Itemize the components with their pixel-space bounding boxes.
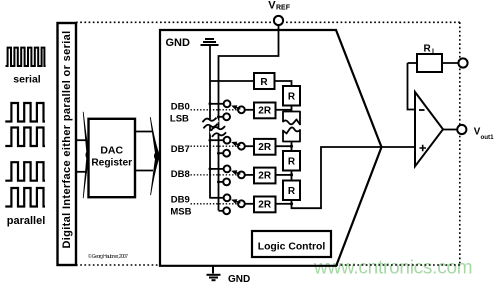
svg-text:© Georg Haubner, 2007: © Georg Haubner, 2007: [88, 253, 128, 260]
svg-text:2R: 2R: [258, 171, 272, 182]
parallel bit waveform 3: [5, 162, 45, 181]
wire chain: [291, 142, 293, 152]
svg-text:GND: GND: [166, 37, 191, 49]
junction dot VREF bus (DB8): [217, 180, 220, 183]
Vout terminal circle: [457, 125, 466, 134]
upper contact circle (DB0): [224, 100, 231, 107]
svg-text:www.cntronics.com: www.cntronics.com: [313, 258, 472, 279]
switch arrow (DB9): [235, 201, 240, 203]
svg-text:parallel: parallel: [7, 215, 46, 227]
resistor 2R (DB0): [254, 103, 276, 119]
wire VREF bus to lower contact (DB9): [219, 210, 224, 212]
wire 2R to chain (DB7): [276, 145, 292, 147]
block arrow: DAC register to DAC core: [150, 117, 160, 195]
svg-text:DB7: DB7: [171, 144, 190, 155]
svg-text:REF: REF: [276, 4, 291, 11]
svg-text:LSB: LSB: [170, 113, 189, 124]
svg-text:R: R: [288, 157, 296, 168]
resistor R (chain, between DB8 and DB9): [283, 181, 300, 201]
parallel bit waveform 2: [5, 128, 45, 147]
digital interface bar: [58, 23, 77, 265]
svg-text:l: l: [432, 49, 434, 56]
VREF feed wire: [219, 25, 279, 211]
serial input waveform: [6, 48, 46, 66]
junction dot chain (DB8): [290, 173, 293, 176]
svg-text:R: R: [260, 77, 268, 88]
wire stub bar to arrow (lower): [76, 171, 87, 173]
svg-text:MSB: MSB: [170, 206, 191, 217]
wire 2R to chain (DB9): [276, 203, 292, 205]
control dotted line DB9: [191, 203, 239, 205]
wire stub bar to arrow (upper): [76, 139, 87, 141]
svg-text:R: R: [288, 92, 296, 103]
junction dot chain (DB9): [290, 202, 293, 205]
switch pole circle (DB0): [238, 106, 245, 113]
lower contact circle (DB8): [223, 179, 230, 186]
lower contact circle (DB7): [223, 150, 230, 157]
resistor R (top of ladder): [254, 73, 275, 89]
wire pole to 2R (DB7): [244, 145, 254, 147]
lower contact circle (DB0): [223, 113, 230, 120]
svg-text:2R: 2R: [258, 142, 272, 153]
wire stub register to arrow (upper): [135, 131, 153, 133]
parallel bit waveform 1: [5, 103, 45, 207]
dashed enclosure border (top, right, bottom): [76, 22, 460, 265]
resistor Rl: [417, 54, 442, 72]
resistor R (chain, below top R): [283, 86, 300, 106]
wire GND bus to upper contact (DB0): [210, 103, 224, 105]
upper contact circle (DB8): [224, 166, 231, 173]
svg-text:serial: serial: [13, 74, 41, 86]
junction dot chain (DB7): [290, 145, 293, 148]
wire bus to R: [210, 80, 254, 82]
wire VREF bus to lower contact (DB7): [219, 152, 224, 154]
chain break symbol (torn box lower): [283, 127, 300, 141]
Logic Control box: [252, 231, 331, 257]
wire VREF bus to lower contact (DB0): [219, 116, 224, 118]
block arrow: interface bar to DAC register: [83, 112, 89, 198]
switch pole circle (DB9): [238, 200, 245, 207]
svg-text:R: R: [424, 44, 432, 55]
parallel bit waveform 4: [5, 188, 45, 207]
resistor 2R (DB7): [254, 139, 276, 155]
control dotted line DB7: [191, 145, 239, 147]
Rl terminal circle: [458, 58, 467, 67]
chain break symbol (torn box upper): [283, 112, 300, 125]
junction dot GND bus (DB7): [209, 139, 212, 142]
junction dot VREF bus (DB7): [217, 152, 220, 155]
svg-text:DAC: DAC: [100, 145, 123, 157]
wire stub register to arrow (lower): [135, 170, 153, 172]
switch pole circle (DB8): [238, 172, 245, 179]
resistor 2R (DB8): [254, 168, 276, 184]
wire Rl to terminal: [442, 62, 459, 64]
wire pole to 2R (DB8): [244, 174, 254, 176]
wire chain: [291, 106, 293, 112]
wire pole to 2R (DB0): [244, 109, 254, 111]
wire 2R to chain (DB8): [276, 174, 292, 176]
wire 2R to chain (DB0): [276, 109, 292, 111]
bus break squiggle (GND bus): [201, 117, 219, 129]
wire pole to 2R (DB9): [244, 203, 254, 205]
wire Rl left: [408, 62, 418, 64]
wire chain to ladder output riser: [292, 147, 416, 208]
switch arrow (DB8): [235, 172, 240, 174]
upper contact circle (DB7): [224, 137, 231, 144]
op-amp output wire: [443, 129, 457, 131]
svg-text:Logic Control: Logic Control: [258, 241, 326, 252]
V_REF terminal circle: [274, 16, 283, 25]
svg-text:DB0: DB0: [171, 101, 190, 112]
wire GND bus to upper contact (DB8): [210, 168, 224, 170]
ground symbol (bottom): [207, 275, 221, 280]
op-amp minus sign: [419, 109, 425, 111]
resistor 2R (DB9): [254, 197, 276, 213]
switch arrow (DB7): [235, 143, 240, 145]
bus break squiggle (VREF bus): [210, 125, 228, 137]
bottom ground stub: [212, 266, 214, 274]
wire R to chain: [275, 81, 292, 86]
control dotted line DB8: [191, 174, 239, 176]
control dotted line DB0: [191, 109, 239, 111]
svg-text:2R: 2R: [258, 106, 272, 117]
svg-text:2R: 2R: [258, 200, 272, 211]
junction dot VREF bus (DB0): [217, 115, 220, 118]
junction dot GND bus (DB8): [209, 167, 212, 170]
switch arrow (DB0): [235, 107, 240, 109]
svg-text:DB8: DB8: [171, 169, 190, 180]
op-amp U1: [415, 92, 443, 166]
wire VREF bus to lower contact (DB8): [219, 181, 224, 183]
svg-text:R: R: [288, 186, 296, 197]
resistor R (chain, between DB7 and DB8): [283, 151, 300, 171]
upper contact circle (DB9): [224, 194, 231, 201]
DAC core block outline (pentagon): [160, 30, 382, 266]
GND bus wire: [209, 45, 211, 199]
wire chain: [291, 171, 293, 181]
wire GND bus to upper contact (DB7): [210, 139, 224, 141]
lower contact circle (DB9): [223, 207, 230, 214]
svg-text:Digital Interface either paral: Digital Interface either parallel or ser…: [61, 30, 73, 248]
feedback wire to inverting input: [408, 63, 416, 110]
op-amp plus sign: [420, 145, 427, 152]
DAC Register box: [89, 119, 136, 197]
wire GND bus to upper contact (DB9): [210, 197, 224, 199]
svg-text:GND: GND: [228, 274, 250, 283]
junction dot GND bus (DB0): [209, 102, 212, 105]
switch pole circle (DB7): [238, 143, 245, 150]
svg-text:DB9: DB9: [171, 194, 190, 205]
ground symbol (top, inverted): [201, 39, 219, 45]
svg-text:out1: out1: [481, 134, 495, 141]
svg-text:Register: Register: [91, 157, 132, 168]
